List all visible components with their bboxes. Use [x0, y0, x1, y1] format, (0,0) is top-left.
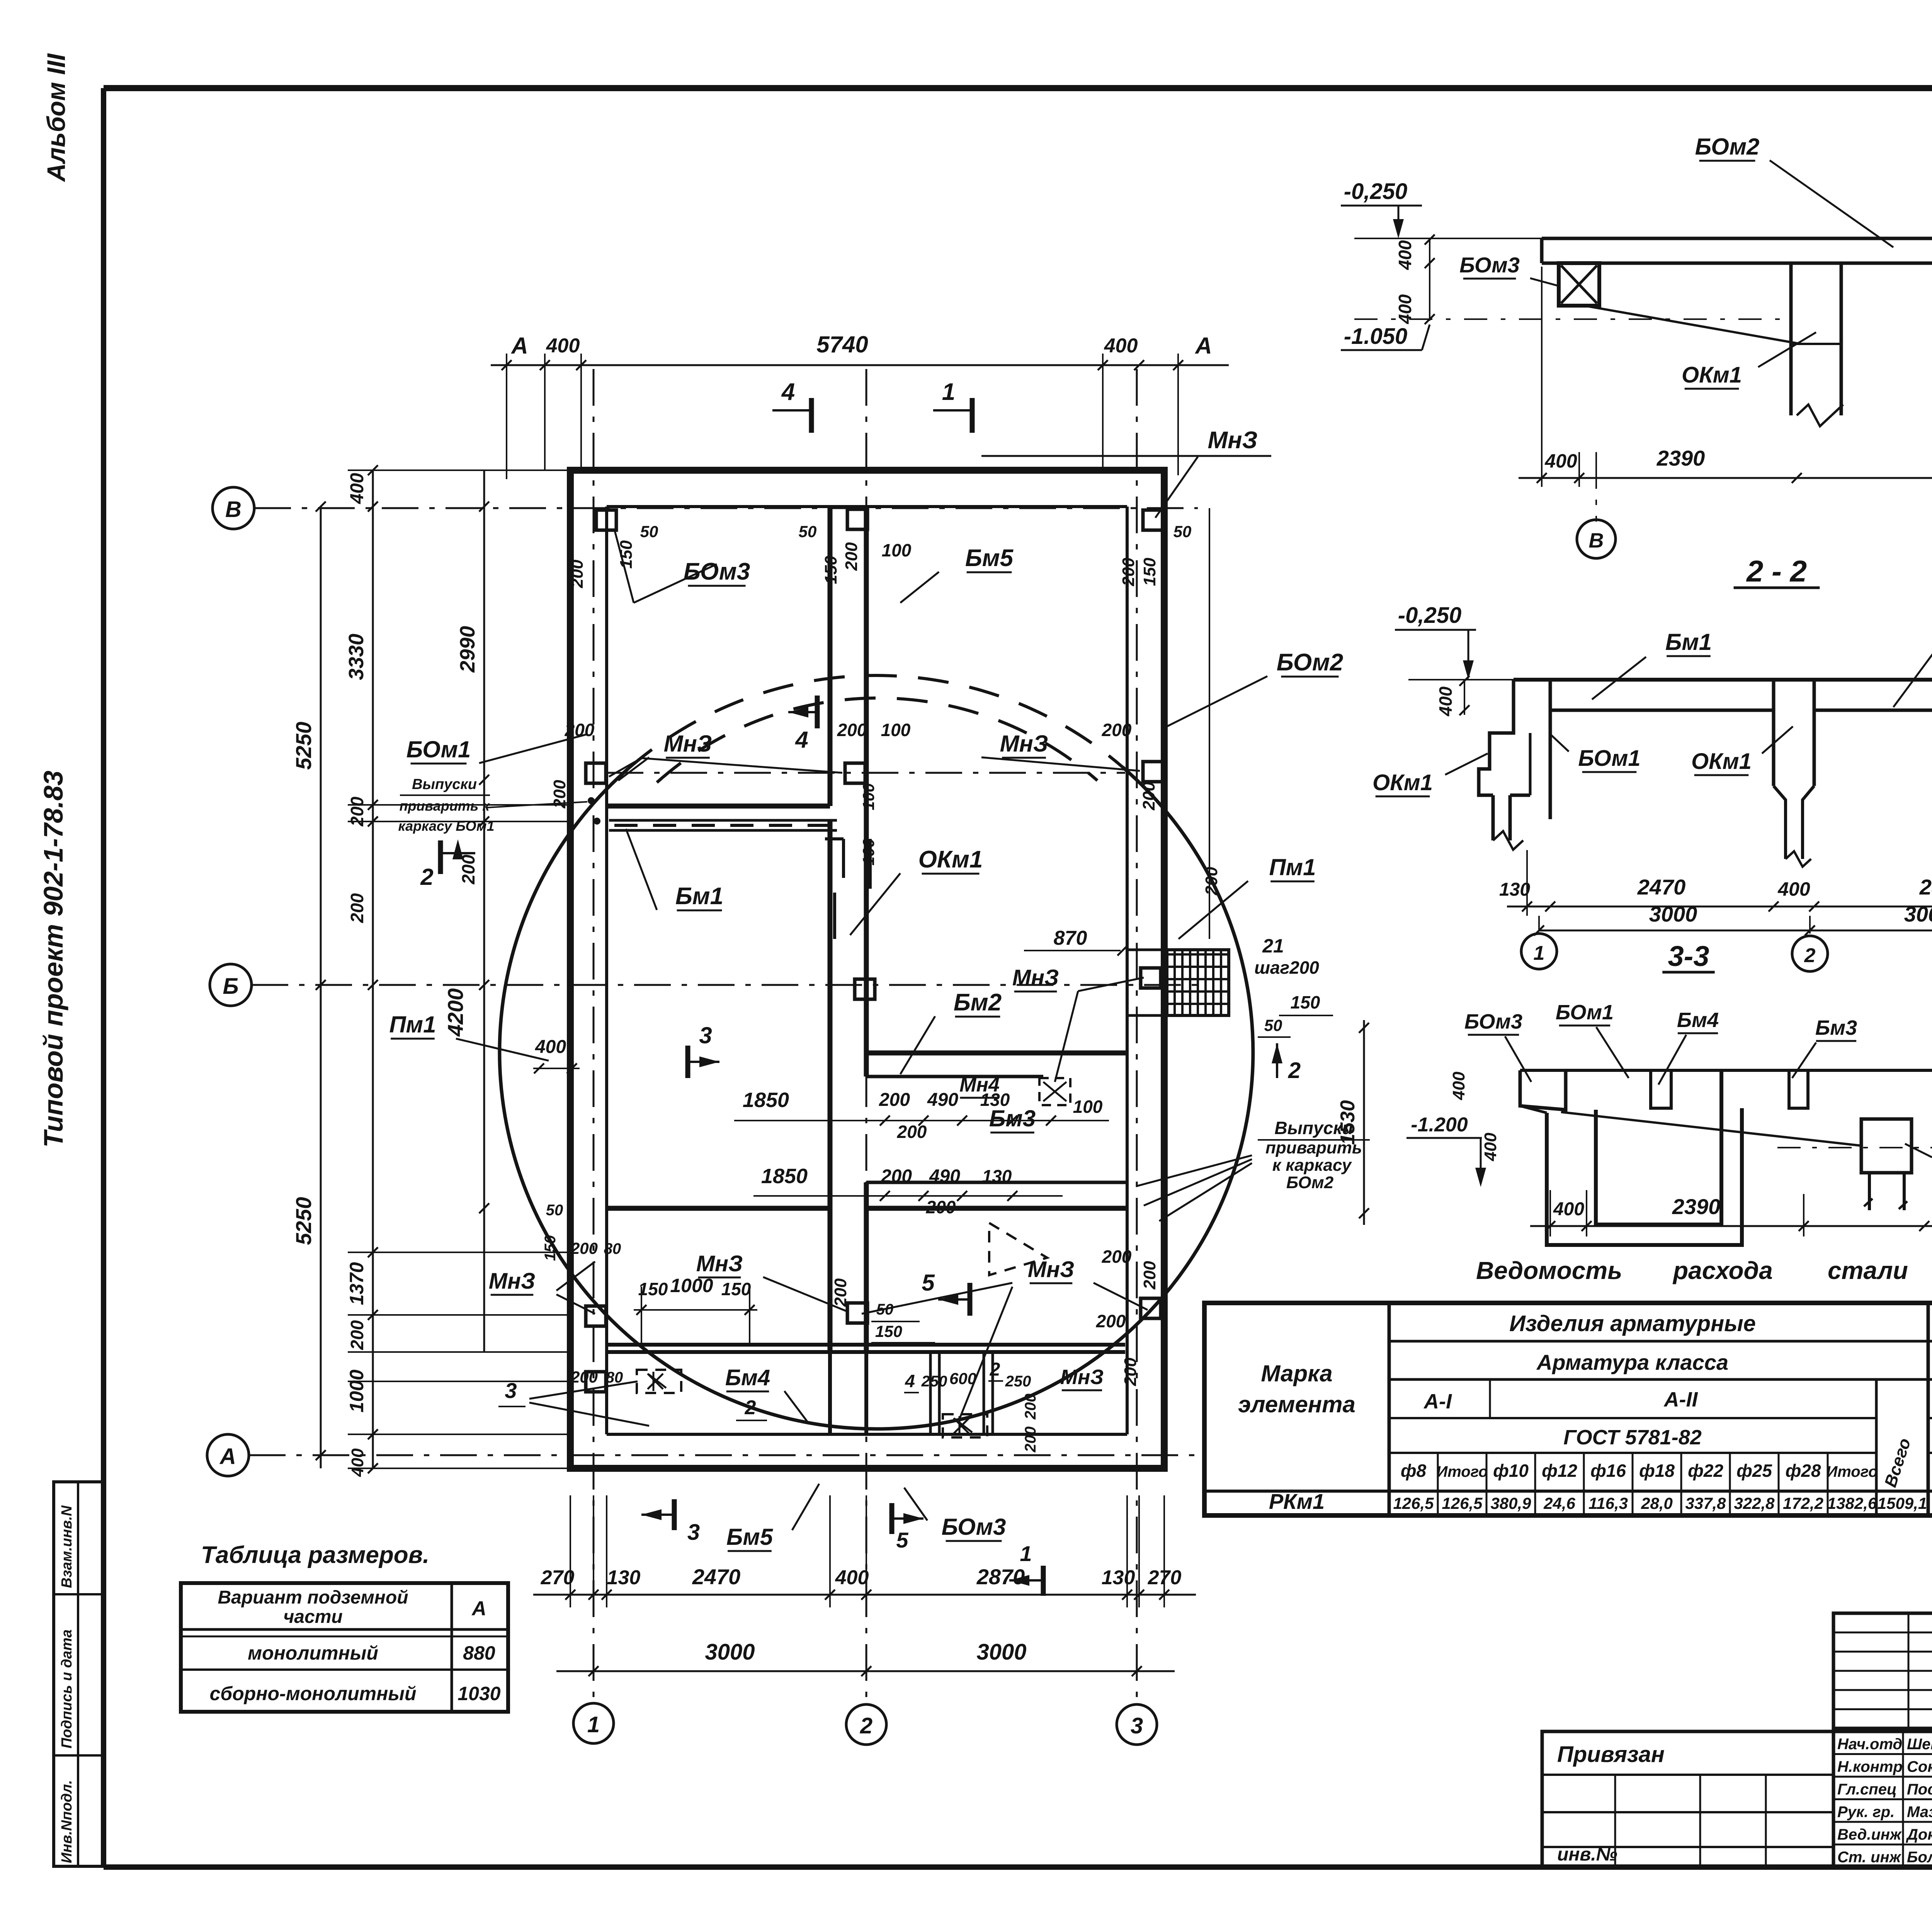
svg-text:150: 150 [638, 1279, 668, 1299]
svg-text:БОм1: БОм1 [406, 736, 471, 762]
svg-text:200: 200 [565, 720, 595, 740]
svg-text:сборно-монолитный: сборно-монолитный [209, 1683, 416, 1704]
svg-text:2: 2 [990, 1359, 1000, 1380]
top dimension line [491, 364, 1229, 366]
svg-text:400: 400 [535, 1037, 566, 1057]
dims row 1850 200 490 130 lower [753, 1195, 1063, 1197]
bottom wall inner face [607, 1433, 1127, 1436]
svg-text:400: 400 [348, 1448, 367, 1477]
svg-text:337,8: 337,8 [1685, 1494, 1726, 1512]
svg-text:Бм1: Бм1 [1665, 629, 1712, 655]
svg-text:инв.№: инв.№ [1557, 1844, 1617, 1865]
svg-text:Вед.инж: Вед.инж [1837, 1826, 1902, 1843]
svg-text:2: 2 [1804, 944, 1816, 967]
svg-text:150: 150 [1140, 558, 1159, 586]
section cut 5 inside plan [968, 1283, 973, 1316]
3-3 long diagonal [1561, 1112, 1861, 1146]
svg-text:400: 400 [1544, 450, 1577, 472]
svg-text:Мазалова: Мазалова [1907, 1804, 1932, 1821]
grid circle B [213, 487, 254, 529]
svg-text:МнЗ: МнЗ [664, 731, 712, 757]
section cut 2 left [440, 852, 475, 854]
svg-text:Бм2: Бм2 [954, 989, 1002, 1016]
svg-text:400: 400 [1104, 335, 1138, 357]
table horizontal rules [1389, 1340, 1932, 1343]
svg-text:БОм2: БОм2 [1695, 134, 1760, 160]
svg-text:2390: 2390 [1672, 1194, 1721, 1219]
svg-text:Арматура класса: Арматура класса [1536, 1350, 1728, 1374]
svg-text:5740: 5740 [816, 332, 868, 357]
border frame top [104, 85, 1932, 91]
svg-text:Подпись и дата: Подпись и дата [59, 1629, 75, 1748]
svg-text:4: 4 [781, 379, 795, 405]
title block staff rows [1833, 1731, 1932, 1867]
svg-text:4: 4 [905, 1371, 915, 1391]
svg-text:Итого: Итого [1826, 1463, 1878, 1480]
svg-text:200: 200 [1139, 782, 1158, 811]
bottom dim row 2 [556, 1670, 1175, 1672]
svg-text:МнЗ: МнЗ [1012, 965, 1059, 990]
svg-text:ф12: ф12 [1542, 1461, 1577, 1481]
hatched plate right bottom room [943, 1414, 987, 1437]
svg-text:200: 200 [1140, 1261, 1159, 1290]
svg-text:400: 400 [1435, 686, 1456, 716]
svg-text:50: 50 [876, 1301, 894, 1318]
svg-text:-0,250: -0,250 [1344, 179, 1407, 204]
grid circle 2 [846, 1704, 886, 1745]
svg-text:50: 50 [1264, 1016, 1282, 1034]
svg-text:100: 100 [1073, 1097, 1103, 1117]
svg-text:БОм3: БОм3 [1459, 253, 1520, 277]
svg-text:130: 130 [1102, 1566, 1135, 1589]
svg-text:Бм4: Бм4 [725, 1365, 770, 1390]
svg-text:200: 200 [1022, 1394, 1039, 1420]
svg-text:200: 200 [1096, 1311, 1126, 1331]
grid line A horizontal [249, 1454, 1198, 1456]
3-3 trough outer U [1547, 1108, 1742, 1245]
svg-text:БОм2: БОм2 [1286, 1173, 1334, 1192]
section cut 2 arrow right side [1276, 1043, 1278, 1078]
bottom cut 1 [1041, 1566, 1046, 1596]
svg-text:Привязан: Привязан [1557, 1742, 1665, 1767]
svg-text:200: 200 [842, 542, 861, 571]
svg-text:1030: 1030 [457, 1683, 500, 1704]
grid line Б horizontal [252, 984, 1198, 986]
svg-text:2 - 2: 2 - 2 [1746, 554, 1807, 588]
svg-text:150: 150 [721, 1279, 751, 1299]
svg-text:400: 400 [1481, 1133, 1500, 1162]
1-1 left column ОКм1 [1789, 263, 1793, 415]
plan big circle shell solid lower arc [500, 767, 1253, 1429]
grid line 1 vertical [593, 369, 595, 1702]
svg-text:3-3: 3-3 [1668, 940, 1709, 972]
svg-text:2870: 2870 [1919, 875, 1932, 899]
svg-text:Нач.отд: Нач.отд [1837, 1736, 1902, 1753]
svg-text:РКм1: РКм1 [1269, 1489, 1325, 1514]
plan big circle shell dashed top arc [628, 675, 1122, 769]
svg-text:БОм3: БОм3 [942, 1514, 1006, 1540]
svg-text:400: 400 [546, 335, 580, 357]
3-3 stud Бм4 [1651, 1070, 1671, 1108]
svg-text:5: 5 [896, 1528, 908, 1552]
svg-text:5250: 5250 [291, 1197, 316, 1245]
1-1 dashed level -1.050 line [1354, 318, 1793, 320]
svg-text:части: части [283, 1607, 342, 1627]
svg-text:А-II: А-II [1663, 1388, 1698, 1411]
svg-text:МнЗ: МнЗ [1000, 731, 1048, 757]
grid line 3 vertical [1136, 369, 1138, 1703]
svg-text:-0,250: -0,250 [1398, 603, 1461, 628]
title block: привязан box [1542, 1731, 1833, 1867]
svg-text:200: 200 [897, 1122, 927, 1142]
svg-text:3000: 3000 [1904, 902, 1932, 926]
svg-text:100: 100 [881, 720, 911, 740]
grid line B horizontal [254, 507, 1198, 509]
section cut 2 dashed triangle right [989, 1223, 1047, 1275]
middle wall right face [864, 507, 869, 1077]
svg-text:200: 200 [1119, 558, 1138, 587]
dims row 1850 200 490 130 upper [734, 1120, 1109, 1121]
svg-text:400: 400 [1449, 1071, 1468, 1100]
table main vertical rules [1388, 1303, 1391, 1515]
svg-text:130: 130 [607, 1566, 641, 1589]
3-3 slab top line [1520, 1069, 1932, 1072]
border frame bottom [104, 1864, 1932, 1870]
svg-text:24,6: 24,6 [1543, 1494, 1575, 1512]
svg-text:3: 3 [699, 1022, 712, 1048]
embedded plate МнЗ square at 2952,3360 [1141, 1298, 1161, 1318]
embedded plate МнЗ square at 1516,1975 [586, 763, 606, 783]
bottom labels: cut 3 [672, 1499, 677, 1530]
svg-text:Н.контр: Н.контр [1837, 1759, 1903, 1776]
svg-text:Ведомость: Ведомость [1476, 1257, 1622, 1284]
svg-text:В: В [1589, 529, 1604, 552]
left dim column 2 [372, 470, 374, 1468]
2-2 left wall БОм1 profile [1479, 680, 1514, 795]
svg-text:1000: 1000 [346, 1369, 367, 1412]
svg-text:В: В [225, 497, 241, 522]
svg-text:Сокольская: Сокольская [1907, 1759, 1932, 1776]
svg-text:ф25: ф25 [1736, 1461, 1772, 1481]
svg-text:1: 1 [942, 379, 955, 405]
svg-text:3: 3 [1131, 1713, 1143, 1738]
bottom cut 5 [889, 1503, 895, 1534]
svg-text:200: 200 [926, 1197, 956, 1217]
svg-text:БОм2: БОм2 [1277, 649, 1343, 676]
svg-text:28,0: 28,0 [1641, 1494, 1673, 1512]
svg-text:100: 100 [859, 838, 878, 866]
svg-text:БОм3: БОм3 [684, 558, 750, 585]
section cut 3 inside plan [685, 1046, 690, 1078]
svg-text:150: 150 [542, 1235, 559, 1261]
svg-text:ОКм1: ОКм1 [918, 846, 983, 873]
bay vertical lines bottom middle [929, 1352, 932, 1434]
embedded plate МнЗ square at 2212,2534 [855, 979, 875, 999]
svg-text:1370: 1370 [346, 1262, 367, 1305]
svg-text:150: 150 [1291, 992, 1320, 1012]
svg-text:200: 200 [570, 1368, 598, 1386]
size table [181, 1583, 508, 1712]
embedded plate МнЗ square at 2193,1318 [847, 509, 867, 529]
svg-text:Бм4: Бм4 [1677, 1009, 1719, 1032]
svg-text:870: 870 [1054, 927, 1087, 949]
svg-text:ф16: ф16 [1590, 1461, 1626, 1481]
svg-text:Вариант подземной: Вариант подземной [218, 1587, 408, 1608]
extension lines top dims [544, 354, 546, 470]
svg-text:200: 200 [570, 1239, 598, 1257]
embedded plate МнЗ square at 1543,1320 [596, 510, 616, 530]
svg-text:200: 200 [837, 720, 867, 740]
svg-text:Инв.Nподл.: Инв.Nподл. [59, 1780, 75, 1863]
svg-text:50: 50 [640, 522, 658, 541]
svg-text:130: 130 [982, 1166, 1012, 1186]
left dim column 3 [483, 470, 485, 1352]
grid line 2 vertical [866, 369, 867, 1703]
svg-text:Постников: Постников [1907, 1781, 1932, 1798]
svg-text:Изделия арматурные: Изделия арматурные [1509, 1311, 1756, 1336]
svg-text:А: А [1194, 333, 1212, 359]
svg-text:200: 200 [1121, 1357, 1140, 1386]
svg-text:3000: 3000 [976, 1639, 1026, 1665]
svg-text:126,5: 126,5 [1442, 1494, 1483, 1512]
svg-text:490: 490 [927, 1090, 958, 1110]
svg-text:270: 270 [1148, 1566, 1182, 1589]
svg-text:к каркасу: к каркасу [1272, 1156, 1352, 1175]
svg-text:приварить к: приварить к [400, 798, 490, 814]
svg-text:Марка: Марка [1261, 1361, 1332, 1386]
3-3 block ОКм1 [1861, 1119, 1912, 1173]
svg-text:Б: Б [223, 974, 238, 999]
svg-text:1: 1 [1020, 1541, 1032, 1566]
svg-text:200: 200 [879, 1090, 910, 1110]
svg-text:Типовой проект 902-1-78.83: Типовой проект 902-1-78.83 [38, 770, 68, 1148]
2-2 left wall inner face [1549, 680, 1552, 819]
svg-text:600: 600 [949, 1369, 976, 1388]
svg-text:400: 400 [347, 473, 367, 504]
svg-text:50: 50 [799, 522, 817, 541]
svg-text:Бм5: Бм5 [726, 1524, 774, 1550]
right room Бм3 wall lower [866, 1181, 1127, 1184]
svg-text:элемента: элемента [1238, 1391, 1355, 1417]
svg-text:5250: 5250 [291, 722, 316, 770]
svg-text:Бм3: Бм3 [989, 1105, 1036, 1131]
svg-text:ОКм1: ОКм1 [1691, 749, 1752, 774]
3-3 stud Бм3 [1789, 1070, 1808, 1108]
OKm1 dashed channel strip [609, 819, 837, 822]
svg-text:Болотинская: Болотинская [1907, 1849, 1932, 1866]
upper-left room bottom wall [607, 804, 830, 809]
svg-text:116,3: 116,3 [1588, 1494, 1628, 1512]
svg-text:Таблица размеров.: Таблица размеров. [201, 1542, 429, 1568]
svg-text:150: 150 [617, 540, 636, 569]
svg-text:Взам.инв.N: Взам.инв.N [59, 1505, 75, 1588]
svg-text:200: 200 [550, 780, 569, 809]
svg-text:Рук. гр.: Рук. гр. [1837, 1804, 1895, 1821]
svg-text:1530: 1530 [1337, 1100, 1359, 1145]
svg-text:ОКм1: ОКм1 [1682, 362, 1742, 388]
grid circle Б [210, 964, 252, 1006]
svg-text:А: А [510, 333, 528, 359]
svg-text:МнЗ: МнЗ [1028, 1257, 1075, 1282]
svg-text:Бм3: Бм3 [1815, 1016, 1857, 1039]
embedded plate МнЗ square at 2958,1320 [1143, 510, 1163, 530]
svg-text:-1.050: -1.050 [1344, 324, 1407, 349]
svg-text:80: 80 [604, 1240, 621, 1257]
table outer box [1204, 1303, 1932, 1515]
right side vertical dim 1530 [1363, 1020, 1365, 1225]
3-3 trough inner U [1596, 1070, 1721, 1225]
section cut 4 top [772, 409, 811, 412]
svg-text:3: 3 [505, 1378, 517, 1403]
svg-text:расхода: расхода [1672, 1257, 1773, 1284]
svg-text:ОКм1: ОКм1 [1372, 770, 1433, 795]
svg-text:270: 270 [541, 1566, 575, 1589]
svg-text:1000: 1000 [670, 1275, 713, 1296]
svg-text:5: 5 [922, 1270, 935, 1296]
1-1 grid circles В А [1577, 520, 1616, 558]
svg-text:ГОСТ 5781-82: ГОСТ 5781-82 [1563, 1426, 1702, 1449]
svg-text:200: 200 [1202, 867, 1221, 896]
dashed Мн4 plate near stair [1039, 1078, 1070, 1105]
svg-text:200: 200 [347, 893, 367, 923]
svg-text:ф22: ф22 [1688, 1461, 1723, 1481]
wall across both rooms y3127 [607, 1206, 830, 1211]
svg-text:Выпуски: Выпуски [412, 776, 477, 793]
embedded plate МнЗ square at 2187,1975 [845, 763, 865, 783]
svg-text:880: 880 [463, 1642, 495, 1664]
grid circle A [207, 1434, 249, 1476]
svg-text:ф8: ф8 [1401, 1461, 1427, 1481]
svg-text:Бм1: Бм1 [675, 883, 723, 910]
svg-text:380,9: 380,9 [1490, 1494, 1531, 1512]
extension lines to plan left [348, 469, 570, 471]
svg-text:МнЗ: МнЗ [489, 1269, 536, 1294]
middle wall left face [828, 507, 833, 806]
svg-text:1: 1 [587, 1712, 600, 1737]
svg-text:200: 200 [831, 1278, 850, 1307]
svg-text:1382,6: 1382,6 [1827, 1494, 1877, 1512]
2-2 grid circles 1 2 3 [1521, 934, 1557, 969]
bottom dim row 1 [533, 1594, 1196, 1596]
svg-text:400: 400 [1553, 1199, 1584, 1219]
svg-text:2: 2 [860, 1713, 872, 1738]
svg-text:А: А [219, 1444, 236, 1469]
svg-text:БОм1: БОм1 [1556, 1001, 1614, 1024]
svg-text:3330: 3330 [345, 634, 368, 680]
svg-text:100: 100 [859, 783, 878, 810]
plan inner circle dashed top arc [657, 698, 1097, 782]
margin stamp box [54, 1482, 104, 1866]
svg-text:21: 21 [1262, 935, 1284, 957]
svg-text:3000: 3000 [1649, 902, 1697, 926]
svg-text:ф18: ф18 [1639, 1461, 1675, 1481]
section cut 1 top [933, 409, 972, 412]
3-3 left stub БОм3 [1520, 1070, 1566, 1110]
section cut 4 inside plan [815, 696, 820, 728]
OKm1 hook bracket [825, 837, 844, 840]
svg-text:2: 2 [420, 864, 433, 890]
svg-text:монолитный: монолитный [248, 1642, 378, 1664]
svg-text:3: 3 [687, 1520, 700, 1545]
embedded plate МнЗ square at 2958,1971 [1143, 762, 1163, 782]
embedded plate МнЗ square at 1516,3550 [586, 1372, 606, 1392]
svg-text:ф10: ф10 [1493, 1461, 1529, 1481]
svg-text:150: 150 [821, 556, 840, 584]
svg-text:3000: 3000 [705, 1639, 755, 1665]
left wall inner face [605, 507, 608, 1434]
grid circle 1 [573, 1703, 614, 1743]
svg-text:-1.200: -1.200 [1411, 1114, 1468, 1136]
svg-text:стали: стали [1828, 1257, 1908, 1284]
svg-text:150: 150 [875, 1322, 902, 1340]
2-2 middle column ОКм1 [1772, 680, 1776, 786]
svg-text:200: 200 [347, 1320, 367, 1350]
svg-text:шаг200: шаг200 [1254, 957, 1319, 978]
svg-text:1850: 1850 [743, 1088, 789, 1112]
svg-text:Пм1: Пм1 [389, 1012, 436, 1037]
svg-text:МнЗ: МнЗ [696, 1251, 743, 1276]
svg-text:2390: 2390 [1656, 446, 1705, 470]
embedded plate МнЗ square at 2193,3372 [847, 1303, 867, 1323]
svg-text:Шевко: Шевко [1907, 1736, 1932, 1753]
svg-text:1509,1: 1509,1 [1878, 1494, 1927, 1512]
svg-text:200: 200 [881, 1166, 912, 1187]
svg-text:250: 250 [921, 1373, 947, 1390]
1-1 slab top [1542, 237, 1932, 240]
2-2 slab top [1514, 678, 1932, 682]
1-1 left wall stub БОм3 [1559, 263, 1599, 306]
table phi column rules [1437, 1453, 1439, 1515]
svg-text:2870: 2870 [976, 1565, 1025, 1589]
middle wall below band [828, 1352, 832, 1434]
svg-text:2470: 2470 [692, 1565, 741, 1589]
svg-text:Итого: Итого [1436, 1463, 1488, 1480]
svg-text:Альбом III: Альбом III [42, 53, 70, 182]
top wall inner face [607, 505, 1127, 508]
svg-text:400: 400 [1777, 878, 1810, 900]
svg-text:каркасу БОм1: каркасу БОм1 [398, 818, 494, 834]
svg-text:400: 400 [1395, 294, 1415, 324]
svg-text:4200: 4200 [443, 988, 468, 1037]
1-1 diagonal to left column [1584, 306, 1801, 344]
right wall inner face [1126, 507, 1129, 1434]
svg-text:2: 2 [745, 1396, 756, 1419]
1-1 slab bottom [1542, 262, 1932, 265]
left dim column 5250 [320, 507, 322, 1468]
embedded plate МнЗ square at 2952,2505 [1141, 968, 1161, 988]
svg-text:Бм5: Бм5 [965, 545, 1014, 571]
svg-text:400: 400 [1395, 240, 1415, 270]
svg-text:МнЗ: МнЗ [1060, 1366, 1104, 1389]
svg-text:БОм3: БОм3 [1464, 1010, 1522, 1033]
svg-text:200: 200 [1102, 720, 1132, 740]
svg-text:Докорал: Докорал [1906, 1826, 1932, 1843]
svg-text:2470: 2470 [1637, 875, 1686, 899]
МнЗ center row line upper [607, 772, 1125, 774]
svg-text:172,2: 172,2 [1783, 1494, 1823, 1512]
svg-text:А-I: А-I [1423, 1390, 1452, 1413]
svg-text:1: 1 [1534, 942, 1545, 964]
svg-text:Пм1: Пм1 [1269, 854, 1316, 880]
embedded plate МнЗ square at 1516,3380 [586, 1306, 606, 1326]
1-1 bottom dim line [1519, 477, 1932, 479]
3-3 bottom dims [1530, 1225, 1932, 1227]
1-1 level line thin [1354, 238, 1542, 239]
svg-text:130: 130 [1499, 879, 1530, 900]
svg-text:322,8: 322,8 [1734, 1494, 1775, 1512]
svg-text:126,5: 126,5 [1393, 1494, 1434, 1512]
svg-text:1850: 1850 [761, 1165, 808, 1188]
